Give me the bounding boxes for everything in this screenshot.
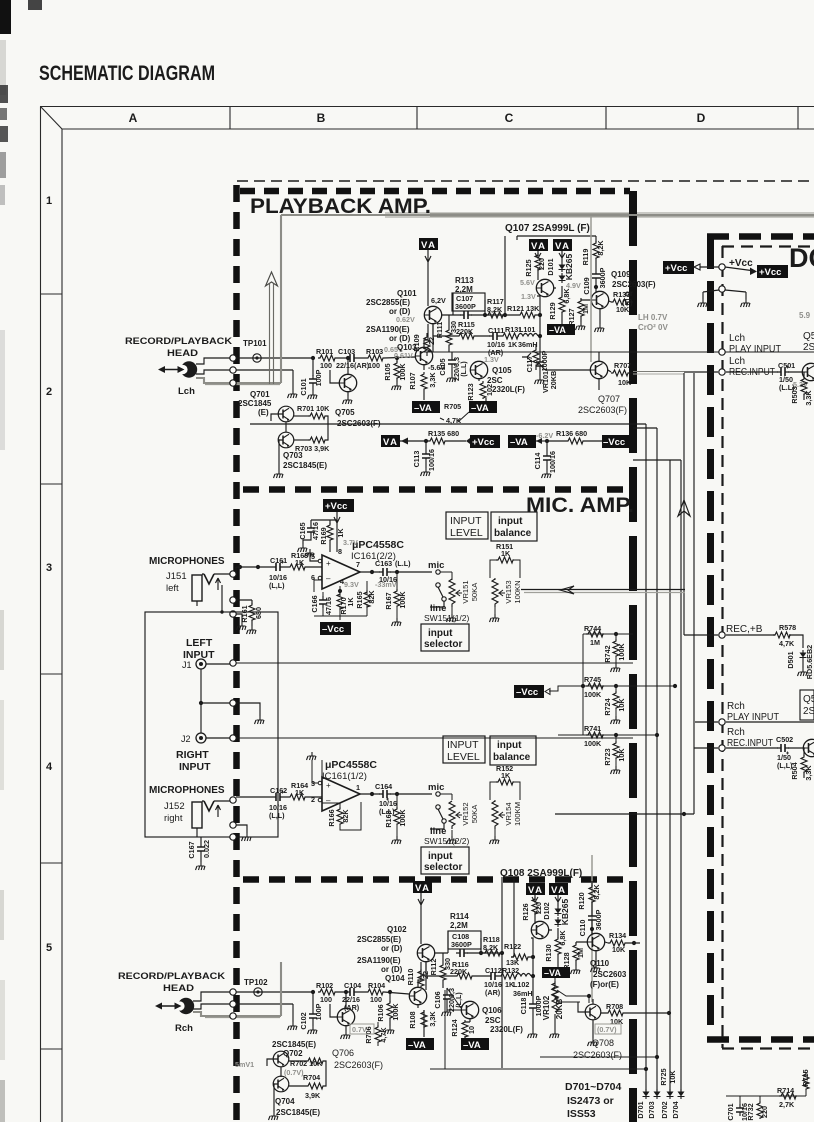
main Lch play wire [420,351,814,353]
svg-text:10K: 10K [612,945,626,954]
svg-text:2320L(F): 2320L(F) [490,1025,523,1034]
transistor Q101 [424,306,441,323]
lower row R116 220K [426,962,487,976]
svg-text:D704: D704 [671,1101,680,1118]
svg-text:(0.7V): (0.7V) [597,1025,617,1034]
connectors mic L [230,571,236,577]
+Vcc box mic [323,499,354,512]
svg-text:100KM: 100KM [513,802,522,826]
svg-text:1M: 1M [590,638,600,647]
svg-text:selector: selector [424,639,462,650]
svg-text:Lch: Lch [729,356,745,367]
svg-text:1M: 1M [576,948,585,958]
svg-text:R130: R130 [544,944,553,961]
svg-text:Rch: Rch [727,701,745,712]
capacitor C165 47/16 [303,520,337,544]
svg-text:VA: VA [383,437,399,448]
svg-text:+Vcc: +Vcc [729,258,753,269]
svg-text:R701 10K: R701 10K [297,404,330,413]
svg-text:3,3K: 3,3K [428,1011,437,1027]
grey vertical line x=592 bottom [591,855,593,1002]
svg-text:R121 13K: R121 13K [507,304,540,313]
svg-text:+: + [326,781,331,790]
svg-text:Rch: Rch [727,727,745,738]
diode D703 [654,1089,661,1099]
pot VR154 100KM [490,800,523,844]
minus VA box q108 [542,967,570,978]
capacitor C114 100/16 [546,441,548,470]
minus VA box b2 [461,1038,489,1051]
transistor Q706 [337,1008,354,1025]
svg-text:50KA: 50KA [470,582,479,602]
junction + R117 8.2K [483,313,487,317]
capacitor C113 100/16 [424,439,428,443]
svg-text:R129: R129 [548,302,557,319]
svg-text:or (D): or (D) [389,334,411,343]
wire Q108 emitter to R122 junction [531,930,552,957]
pot VR151 50KA [440,572,479,622]
svg-text:R107: R107 [408,372,417,389]
resistor R102 100 [318,989,336,995]
output + C164 [360,793,432,795]
svg-text:1000P: 1000P [540,350,549,371]
svg-text:C105: C105 [438,358,447,375]
svg-text:1M: 1M [581,304,590,314]
svg-text:R135 680: R135 680 [428,429,459,438]
resistor R732 220 [759,1096,761,1102]
svg-text:Q110: Q110 [590,959,610,968]
svg-text:R133: R133 [613,290,630,299]
svg-text:10K: 10K [617,748,626,762]
svg-text:REC,+B: REC,+B [726,624,763,635]
minus VA box 1 [412,401,440,414]
vertical bus wires [645,424,647,1092]
svg-text:HEAD: HEAD [167,348,199,358]
svg-text:R578: R578 [779,623,796,632]
svg-text:μPC4558C: μPC4558C [325,759,377,771]
capacitor C167 0.022 [200,837,202,862]
svg-text:–VA: –VA [510,437,528,448]
svg-text:R127: R127 [567,308,576,325]
row labels [46,195,53,954]
svg-text:Q5: Q5 [803,331,814,342]
resistor R724 10K vertical [615,686,617,716]
svg-text:20KB: 20KB [549,371,558,389]
svg-text:100K: 100K [617,643,626,661]
svg-text:C109: C109 [582,277,591,294]
svg-text:2,7K: 2,7K [779,1100,795,1109]
svg-text:4,7K: 4,7K [779,639,795,648]
resistor R103 100 [366,355,384,361]
mic amp box bottom edge [243,876,629,883]
svg-text:J152: J152 [164,801,185,812]
head symbol Lch [158,361,197,377]
svg-text:REC.INPUT: REC.INPUT [727,738,773,749]
svg-text:100: 100 [320,361,332,370]
svg-text:PLAY INPUT: PLAY INPUT [727,712,779,723]
transistor Q5xx partial [803,739,814,756]
svg-text:INPUT: INPUT [179,761,211,773]
svg-text:+Vcc: +Vcc [759,267,781,278]
resistor R125 220 vertical [535,251,541,280]
thin dashed top line pcb box [237,180,814,182]
svg-text:100KN: 100KN [513,580,522,603]
output wire + C163 [360,571,432,573]
wire row y=428 [633,428,681,460]
scan smudges left edge [0,0,42,1122]
op-amp IC161 (1/2) [311,777,360,811]
svg-text:C163: C163 [375,559,392,568]
svg-text:or (D): or (D) [381,944,403,953]
wire Q107 emitter to R121 junction [537,288,556,315]
svg-text:D501: D501 [786,651,795,668]
wires Q702/Q704 [267,1059,281,1112]
pot VR152 50KA [440,794,479,844]
svg-text:5: 5 [46,942,52,954]
transistor Q702 [273,1051,289,1067]
svg-text:2SC: 2SC [487,376,503,385]
+Vcc box right [757,265,788,278]
svg-text:6,8K: 6,8K [558,930,567,946]
playback/mic amp box left edge (thick dashes) [233,185,240,1122]
grounds under R129/R127 [557,322,567,330]
svg-text:R113: R113 [455,276,474,285]
svg-text:100K: 100K [584,739,602,748]
svg-text:(AR): (AR) [485,988,501,997]
svg-text:(L,L): (L,L) [269,811,285,820]
resistor R109 22 vertical [426,333,428,356]
svg-text:C101: C101 [299,378,308,395]
resistor R112 330 vertical [440,963,446,981]
svg-text:D701: D701 [636,1101,645,1118]
svg-text:R103: R103 [366,347,383,356]
svg-text:R724: R724 [603,698,612,715]
resistor R169 1K [329,520,331,552]
resistor R119 8.2K vertical [595,236,597,270]
svg-text:balance: balance [494,528,532,539]
svg-text:C104: C104 [344,981,361,990]
resistor R104 100 [366,989,384,995]
svg-text:CrO² 0V: CrO² 0V [638,323,668,332]
svg-text:0.62V: 0.62V [396,315,415,324]
capacitor C701 [739,1096,741,1104]
svg-text:2320L(F): 2320L(F) [492,385,525,394]
junction at C101 [311,356,315,360]
minus VA box q107 [547,324,575,335]
svg-text:R168: R168 [384,810,393,827]
resistor R101 100 [318,355,336,361]
resistor R123 102 vertical [479,379,486,401]
svg-text:–VA: –VA [463,1040,481,1051]
svg-text:VA: VA [555,241,571,252]
wires to buses bottom [430,1057,657,1069]
resistor R704 3.9K [306,1083,324,1089]
resistor R106 100K [388,990,392,994]
svg-text:Lch: Lch [729,333,745,344]
wires Q110 emitter [576,942,596,964]
svg-text:balance: balance [493,752,531,763]
svg-text:MICROPHONES: MICROPHONES [149,785,225,796]
VA supply box [419,238,438,251]
INPUT LEVEL box [446,512,488,539]
svg-text:input: input [428,628,453,639]
mic jack J152 [192,801,230,837]
wires Q705 [330,358,348,396]
diode D101 (two in series) [559,251,565,290]
svg-text:R119: R119 [581,249,590,266]
svg-text:R745: R745 [584,675,601,684]
switch SW151(1/2) mic/line [424,560,470,623]
svg-text:100K: 100K [391,1003,400,1021]
svg-text:R114: R114 [450,912,469,921]
pot VR153 100KN [490,578,523,622]
svg-text:D101: D101 [546,258,555,275]
VA arrow box row y=442 [381,435,400,448]
svg-text:2SC2603(F): 2SC2603(F) [578,405,627,415]
svg-text:2SC2855(E): 2SC2855(E) [366,298,410,307]
svg-text:3600P: 3600P [598,267,607,288]
transistor Q704 [273,1076,289,1092]
svg-text:LEVEL: LEVEL [447,751,480,763]
svg-text:R134: R134 [609,931,626,940]
bias resistor mid [555,978,580,1002]
transistor Q106 [461,1001,478,1018]
pot VR101 20KB [522,345,558,393]
transistor Q104 [409,987,426,1004]
svg-text:4: 4 [46,761,53,773]
svg-text:R106: R106 [376,1004,385,1021]
resistor R706 4.7K [377,1022,379,1046]
svg-text:2S: 2S [803,342,814,353]
svg-text:INPUT: INPUT [447,739,479,751]
svg-text:(L.L): (L.L) [395,559,411,568]
svg-text:C117: C117 [525,356,534,373]
svg-text:100P: 100P [314,369,323,386]
svg-text:VR151: VR151 [461,580,470,603]
svg-text:2SC2603: 2SC2603 [593,970,627,979]
svg-text:2,2M: 2,2M [450,921,468,930]
ground wire2 Rch [292,1004,294,1022]
svg-text:2SC1845(E): 2SC1845(E) [276,1108,320,1117]
svg-text:(L.L): (L.L) [459,361,468,377]
minus Vcc box mid [514,685,544,698]
svg-text:4,7K: 4,7K [379,1027,388,1043]
svg-text:R732: R732 [746,1103,755,1120]
svg-text:2SC2603(F): 2SC2603(F) [612,280,656,289]
svg-text:Q708: Q708 [592,1038,614,1048]
transistor Q701 [278,406,294,422]
resistor R703 3.9K [308,437,326,443]
transistor Q110 [587,933,604,950]
transistor Q703 [278,432,294,448]
svg-text:–Vcc: –Vcc [516,687,538,698]
svg-text:(0.7V): (0.7V) [284,1068,304,1077]
collector rail [517,236,596,240]
svg-text:MICROPHONES: MICROPHONES [149,556,225,567]
svg-text:–VA: –VA [408,1040,426,1051]
svg-text:Lch: Lch [178,386,195,397]
VA box c [526,883,545,896]
svg-text:R165: R165 [355,591,364,608]
svg-text:1.3V: 1.3V [521,292,536,301]
VA box bottom [413,881,432,894]
transistor Q105 [470,361,487,378]
resistor R118 8.2K [479,951,483,955]
capacitor C101 100P [312,358,314,376]
svg-text:3,3K: 3,3K [804,390,813,406]
ground pin5 [310,553,318,561]
svg-text:R723: R723 [603,748,612,765]
resistor R111 330 vertical [446,328,452,346]
svg-text:C113: C113 [412,451,421,468]
diode D702 [667,1089,674,1099]
svg-text:5mV1: 5mV1 [235,1060,254,1069]
svg-text:C: C [505,111,514,125]
svg-text:TP102: TP102 [244,978,268,987]
input balance box 2 [490,736,536,765]
svg-text:10K: 10K [668,1070,677,1084]
input selector box [421,624,469,651]
svg-text:1K: 1K [336,528,345,538]
svg-text:J1: J1 [182,660,192,670]
wires Q102-Q104 [418,953,448,1008]
svg-text:R705: R705 [444,402,461,411]
svg-text:C167: C167 [187,841,196,858]
capacitor C118 1000P [519,976,543,1038]
svg-text:C502: C502 [776,735,793,744]
node on inner dash [719,264,725,270]
svg-text:6,8K: 6,8K [562,288,571,304]
svg-text:input: input [498,516,523,527]
svg-text:82K: 82K [367,590,376,604]
svg-text:R703 3,9K: R703 3,9K [295,444,330,453]
svg-text:R102: R102 [316,981,333,990]
ground under wire2 [292,370,294,390]
svg-text:RECORD/PLAYBACK: RECORD/PLAYBACK [118,971,226,981]
svg-text:100K: 100K [398,363,407,381]
svg-text:R126: R126 [521,903,530,920]
svg-text:R504: R504 [790,762,799,779]
svg-text:680: 680 [254,607,263,619]
svg-text:R104: R104 [368,981,385,990]
svg-text:J151: J151 [166,571,187,582]
svg-text:Q108 2SA999L(F): Q108 2SA999L(F) [500,868,582,879]
svg-text:10: 10 [467,1026,476,1034]
svg-text:D701~D704: D701~D704 [565,1081,621,1093]
diode D501 [800,650,807,660]
VA box b [553,239,572,252]
column labels [129,111,706,125]
grey voltage box [350,1024,374,1034]
svg-text:10K: 10K [617,698,626,712]
svg-text:2SA1190(E): 2SA1190(E) [357,956,401,965]
svg-text:R101: R101 [316,347,333,356]
svg-text:SCHEMATIC DIAGRAM: SCHEMATIC DIAGRAM [39,62,215,85]
svg-text:R169: R169 [319,527,328,544]
svg-text:RD5.6EB2: RD5.6EB2 [805,645,814,679]
svg-text:mic: mic [428,560,444,571]
svg-text:INPUT: INPUT [450,515,482,527]
svg-text:+Vcc: +Vcc [665,263,687,274]
svg-text:(F)or(E): (F)or(E) [590,980,619,989]
resistor R168 100K [395,792,399,796]
svg-text:1K: 1K [295,558,305,567]
mic jack J151 [192,574,230,614]
svg-text:(E): (E) [258,408,269,417]
svg-text:C102: C102 [299,1012,308,1029]
svg-text:Q701: Q701 [250,390,270,399]
svg-text:–VA: –VA [544,968,561,978]
svg-text:VA: VA [528,885,544,896]
svg-text:102: 102 [485,384,494,396]
resistor R110 22 vertical [418,969,424,987]
svg-text:C103: C103 [338,347,355,356]
svg-text:Q702: Q702 [283,1049,303,1058]
resistor R127 1M vertical [580,298,582,322]
VA box d [549,883,568,896]
up arrow on bus [678,500,690,516]
svg-text:82K: 82K [341,809,350,823]
svg-text:R132: R132 [502,966,519,975]
wires Q701/Q703 [271,414,286,470]
VA box a [529,239,548,252]
wire row y=424 feedback [250,423,646,425]
svg-text:3: 3 [46,562,52,574]
svg-text:–: – [326,574,331,583]
svg-text:47/16: 47/16 [324,597,333,615]
svg-text:3.7V: 3.7V [343,538,358,547]
INPUT LEVEL box 2 [443,736,485,763]
svg-text:3,3K: 3,3K [804,765,813,781]
horizontal wire y=814 [555,813,694,815]
ground pin3 stem [312,760,322,783]
resistor R128 1M vertical [575,942,577,966]
svg-text:–VA: –VA [549,325,566,335]
scan streak artifact [385,212,814,218]
svg-text:L102: L102 [513,980,529,989]
shield drain wires with up arrow [266,272,278,384]
resistor R124 10 vertical [465,1019,470,1038]
svg-text:50KA: 50KA [470,804,479,824]
resistor R108 3.3K [421,1010,427,1028]
resistor R130 6.8K vertical [557,932,559,966]
svg-text:DC: DC [789,243,814,273]
wire up from R118 junction [502,877,533,1068]
transistor Q501 partial [802,363,814,380]
svg-text:D: D [697,111,706,125]
svg-text:μPC4558C: μPC4558C [352,539,404,551]
DC box inner thin dashed [721,246,723,1048]
svg-text:left: left [166,583,179,594]
svg-text:right: right [164,813,183,824]
minus VA box 2 [469,401,497,414]
capacitor C107 symbol [460,311,472,319]
ground under Q705 [343,396,353,404]
svg-text:6,2V: 6,2V [431,296,446,305]
svg-text:9.3V: 9.3V [344,580,359,589]
wire VA to Q101 [425,250,431,306]
wires Q109 emitter down [581,300,600,324]
resistor R161 680 [236,600,252,626]
left input box [145,612,278,837]
svg-text:C112: C112 [485,966,502,975]
svg-text:C165: C165 [298,522,307,539]
svg-text:2SA1190(E): 2SA1190(E) [366,325,410,334]
svg-text:Q707: Q707 [598,394,620,404]
svg-text:0.7V: 0.7V [352,1025,367,1034]
svg-text:C118: C118 [519,998,528,1015]
wire [726,1090,806,1096]
